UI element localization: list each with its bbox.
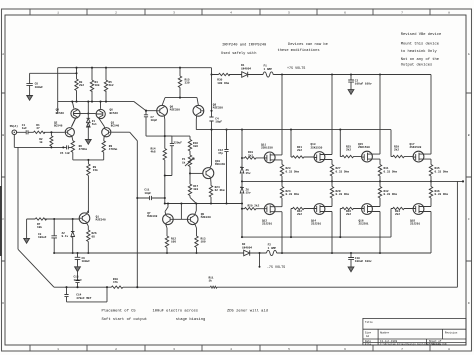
node emitter tie xyxy=(87,159,89,161)
svg-text:220uF: 220uF xyxy=(174,141,183,144)
svg-text:Placement of C5: Placement of C5 xyxy=(102,308,137,313)
svg-text:0.33 Ohm: 0.33 Ohm xyxy=(336,192,350,196)
node input xyxy=(50,131,52,133)
transistor Q3 xyxy=(102,128,111,137)
svg-text:1k: 1k xyxy=(39,140,43,144)
svg-text:4: 4 xyxy=(230,348,232,351)
svg-text:2: 2 xyxy=(115,348,117,351)
resistor R23 xyxy=(280,160,283,182)
svg-text:47: 47 xyxy=(36,127,40,130)
svg-text:MJE350: MJE350 xyxy=(213,107,223,110)
wire output rail xyxy=(242,181,463,287)
svg-text:6: 6 xyxy=(344,348,346,351)
transistor Q8 MJE350 xyxy=(193,105,204,116)
svg-text:Title: Title xyxy=(365,320,373,324)
svg-text:2SK1530: 2SK1530 xyxy=(261,147,273,150)
svg-text:2SK1530: 2SK1530 xyxy=(311,146,323,149)
capacitor C9 220uF branch xyxy=(165,136,174,175)
svg-text:62 Ohm: 62 Ohm xyxy=(215,188,225,192)
resistor R34 gate xyxy=(391,207,413,237)
wire R7 left leg xyxy=(26,219,28,238)
wire C7 to VAS node xyxy=(146,135,165,137)
svg-text:2k2: 2k2 xyxy=(297,212,302,216)
frame right tick marks xyxy=(466,93,472,261)
svg-text:1N4004: 1N4004 xyxy=(241,67,251,70)
svg-text:4: 4 xyxy=(230,11,232,14)
wire cascode base tie xyxy=(81,113,96,115)
svg-text:D: D xyxy=(2,302,4,305)
svg-text:1: 1 xyxy=(57,348,59,351)
wire Q4 collector stub xyxy=(72,102,74,109)
wire left bias drop to Q4 base xyxy=(57,68,59,114)
svg-text:8: 8 xyxy=(448,348,450,351)
svg-text:Revised VBe device: Revised VBe device xyxy=(401,32,442,37)
svg-text:R20 2k2: R20 2k2 xyxy=(248,203,260,207)
wire Q3 base to feedback xyxy=(112,132,138,287)
resistor R24 xyxy=(209,186,212,204)
wire Q12 drain xyxy=(281,212,283,253)
resistor R15 xyxy=(178,68,181,98)
resistor R32 source xyxy=(378,181,381,206)
junction nodes bias network xyxy=(189,172,191,174)
junction nodes P gate xyxy=(241,208,243,210)
svg-text:4k8: 4k8 xyxy=(193,144,198,148)
scan artifact left edge xyxy=(0,186,2,256)
mosfet Q11 xyxy=(264,152,275,163)
transistor Q4 xyxy=(71,109,80,118)
note revised vbe device xyxy=(401,32,442,68)
input jack IN(A) xyxy=(12,130,17,135)
transistor Q6 MJE350 xyxy=(157,105,168,116)
svg-text:47k: 47k xyxy=(113,280,118,284)
wire P gate bus xyxy=(242,236,391,238)
wire bottom rail left xyxy=(54,252,244,254)
zener Z2 xyxy=(71,219,75,253)
svg-text:10pF: 10pF xyxy=(144,192,151,195)
svg-text:B: B xyxy=(2,134,4,137)
wire Z1 top link xyxy=(87,102,89,114)
svg-text:MJE340: MJE340 xyxy=(147,215,157,218)
wire Q3 collector to Q6 emitter xyxy=(103,127,105,129)
svg-text:A4: A4 xyxy=(366,335,370,338)
svg-text:Devices can now be: Devices can now be xyxy=(288,42,328,47)
svg-text:10k: 10k xyxy=(95,83,100,87)
svg-text:2k2: 2k2 xyxy=(346,212,351,216)
wire Q1 base xyxy=(27,218,80,220)
svg-text:Revision: Revision xyxy=(445,330,458,334)
junction nodes front end xyxy=(75,72,77,74)
transistor Q8 MJE340 xyxy=(187,214,198,225)
wire Q10 base xyxy=(190,172,203,174)
resistor R13 xyxy=(195,224,198,253)
svg-text:0.33 Ohm: 0.33 Ohm xyxy=(435,169,449,173)
resistor R18 xyxy=(165,136,192,155)
ground below Z1 xyxy=(85,140,91,145)
wire bias node row xyxy=(165,203,242,205)
ground below C2 xyxy=(348,90,354,95)
ground arrow C6 xyxy=(75,262,81,281)
wire Q18 drain xyxy=(430,212,432,254)
resistor R3 xyxy=(75,68,78,102)
svg-text:MJE340: MJE340 xyxy=(215,163,225,166)
capacitor C13 xyxy=(75,281,79,288)
wire Q8 collector xyxy=(195,116,197,130)
svg-text:Size: Size xyxy=(365,330,372,334)
zener chain vertical xyxy=(241,130,243,238)
diode D1 xyxy=(242,72,263,78)
wire Q1 collector xyxy=(87,211,89,214)
resistor R2 xyxy=(50,132,53,147)
junction nodes rails xyxy=(281,73,283,75)
svg-text:IN(A): IN(A) xyxy=(10,124,19,128)
junction dots front end xyxy=(71,67,147,115)
wire jack sleeve xyxy=(14,135,63,148)
zener Z1 xyxy=(87,114,91,140)
wire bias vertical xyxy=(210,68,212,168)
resistor R6 xyxy=(71,141,74,160)
wire ground drop xyxy=(18,147,54,287)
svg-text:BC546: BC546 xyxy=(54,125,63,128)
svg-text:100uF: 100uF xyxy=(35,86,44,89)
svg-text:47p: 47p xyxy=(218,152,223,155)
svg-text:100 Ohm: 100 Ohm xyxy=(217,81,229,85)
svg-text:IRFP240 and IRFP9240: IRFP240 and IRFP9240 xyxy=(222,42,266,47)
svg-text:Output devices: Output devices xyxy=(401,63,433,68)
svg-text:4k8: 4k8 xyxy=(151,150,156,154)
wire N gate bus xyxy=(196,129,391,131)
svg-text:2SK1530: 2SK1530 xyxy=(410,146,422,149)
svg-text:1uF: 1uF xyxy=(22,127,27,130)
resistor R27 xyxy=(330,160,333,182)
svg-text:470nF MET: 470nF MET xyxy=(76,297,91,300)
resistor R12 xyxy=(165,224,168,253)
svg-text:1k: 1k xyxy=(182,160,186,164)
mosfet Q18 xyxy=(413,204,424,215)
wire Q14 drain xyxy=(331,212,333,254)
wire Q11 drain xyxy=(281,75,283,155)
svg-text:3: 3 xyxy=(173,348,175,351)
ground below C10 xyxy=(348,267,354,272)
mosfet Q14 xyxy=(314,204,325,215)
wire feedback line xyxy=(54,286,457,288)
node sleeve R2 xyxy=(50,146,52,148)
transistor Q10 vbe multiplier xyxy=(203,168,214,179)
wire Q8 collector xyxy=(195,204,196,215)
capacitor C10 xyxy=(348,253,354,267)
svg-text:100: 100 xyxy=(171,241,176,244)
title block xyxy=(363,318,466,345)
svg-text:10pF: 10pF xyxy=(151,119,158,122)
svg-text:1 AMP: 1 AMP xyxy=(268,247,277,250)
resistor R21 gate xyxy=(291,130,314,159)
note placement of C5 xyxy=(102,308,269,322)
zener Z6 xyxy=(240,187,244,193)
svg-text:BC546: BC546 xyxy=(56,112,65,115)
capacitor C11 wire xyxy=(137,196,165,200)
svg-text:9.1v: 9.1v xyxy=(62,235,69,238)
svg-text:these modifications: these modifications xyxy=(278,48,320,53)
wire Q15 drain xyxy=(379,75,381,155)
svg-text:2k2: 2k2 xyxy=(346,148,351,152)
wire emitter tie xyxy=(73,159,104,161)
svg-text:15v: 15v xyxy=(246,192,251,195)
svg-text:2: 2 xyxy=(115,11,117,14)
resistor R7 xyxy=(35,218,47,220)
wire Q6 collector stub xyxy=(100,102,102,109)
svg-text:+75 VOLTS: +75 VOLTS xyxy=(287,67,305,71)
resistor R35 xyxy=(429,159,432,181)
svg-text:5: 5 xyxy=(288,348,290,351)
wire front-end top rail xyxy=(58,67,212,69)
svg-text:Number: Number xyxy=(380,330,390,334)
svg-text:MJE340: MJE340 xyxy=(96,218,106,221)
resistor R25 gate xyxy=(340,130,361,158)
svg-text:0.33 Ohm: 0.33 Ohm xyxy=(336,169,350,173)
svg-text:D: D xyxy=(468,302,470,305)
resistor R26 gate xyxy=(340,207,361,237)
resistor R17 xyxy=(188,173,196,203)
resistor R10 xyxy=(111,286,123,288)
svg-text:3k3: 3k3 xyxy=(193,187,198,191)
svg-text:C5 1nF: C5 1nF xyxy=(60,152,70,155)
svg-text:A: A xyxy=(2,53,4,56)
wire Q6 collector xyxy=(163,115,166,148)
svg-text:2SK1530: 2SK1530 xyxy=(358,146,370,149)
capacitor C8 xyxy=(26,73,32,95)
svg-text:ZD5 zener will aid: ZD5 zener will aid xyxy=(227,308,268,313)
resistor R28 source xyxy=(330,181,333,206)
wire Q2 collector to Q4 emitter xyxy=(72,119,76,127)
svg-text:File: File xyxy=(365,342,372,346)
capacitor C14 loop xyxy=(64,287,107,302)
wire Q7 collector xyxy=(165,204,168,215)
capacitor C4 xyxy=(209,117,213,121)
svg-text:15k: 15k xyxy=(93,168,98,172)
resistor R20 gate xyxy=(242,208,264,210)
svg-text:6: 6 xyxy=(344,11,346,14)
svg-text:5v1: 5v1 xyxy=(92,123,97,126)
junction nodes VAS xyxy=(179,67,181,69)
svg-text:A: A xyxy=(468,53,470,56)
resistor R29 gate xyxy=(391,130,413,158)
ground below R7 xyxy=(24,238,30,243)
transistor Q6 input cascode xyxy=(96,109,105,118)
svg-text:15v: 15v xyxy=(246,172,251,175)
wire Q10 emitter to R24 xyxy=(210,178,212,185)
svg-text:B: B xyxy=(468,134,470,137)
svg-text:2SJ201: 2SJ201 xyxy=(262,223,272,226)
mosfet Q13 xyxy=(314,152,325,163)
capacitor C5 xyxy=(63,145,71,149)
resistor R30 xyxy=(212,73,242,75)
frame bottom tick marks xyxy=(30,345,430,351)
resistor R11 xyxy=(210,286,217,288)
svg-text:100uF: 100uF xyxy=(38,236,47,239)
svg-text:Drawn By:: Drawn By: xyxy=(429,343,443,346)
frame left tick marks xyxy=(2,93,6,261)
wire +75V rail xyxy=(282,74,431,76)
svg-text:100uF 100v: 100uF 100v xyxy=(355,83,372,86)
svg-text:330: 330 xyxy=(185,82,190,85)
resistor R36 source xyxy=(429,181,432,206)
diode D2 xyxy=(244,250,267,256)
junction nodes feedback xyxy=(76,252,78,254)
resistor R22 gate xyxy=(291,207,314,237)
capacitor C7 xyxy=(144,111,148,136)
svg-text:1N4004: 1N4004 xyxy=(242,246,252,249)
svg-text:2k2: 2k2 xyxy=(109,83,114,87)
svg-text:C: C xyxy=(2,218,4,221)
resistor R24 source xyxy=(280,181,283,206)
svg-text:7: 7 xyxy=(401,11,403,14)
svg-text:MJE340: MJE340 xyxy=(201,216,211,219)
resistor R14 xyxy=(163,149,166,204)
zener Z5 xyxy=(240,167,244,173)
wire MJE350 emitter bus xyxy=(162,98,198,106)
svg-text:2k2: 2k2 xyxy=(394,148,399,152)
resistor R19 gate xyxy=(242,157,264,159)
mosfet Q15 xyxy=(362,151,373,162)
svg-text:100uF electro across: 100uF electro across xyxy=(153,308,199,313)
svg-text:BC546: BC546 xyxy=(110,112,119,115)
svg-text:0.33 Ohm: 0.33 Ohm xyxy=(435,192,449,196)
svg-text:2k2: 2k2 xyxy=(248,153,253,157)
svg-text:7: 7 xyxy=(401,348,403,351)
svg-text:0.33 Ohm: 0.33 Ohm xyxy=(286,192,300,196)
svg-text:0.33 Ohm: 0.33 Ohm xyxy=(384,169,398,173)
svg-text:10pF: 10pF xyxy=(215,121,222,124)
capacitor C1 xyxy=(17,130,34,134)
svg-text:BC546: BC546 xyxy=(111,125,120,128)
svg-text:1k: 1k xyxy=(209,279,213,283)
svg-text:C: C xyxy=(468,218,470,221)
svg-text:1 AMP: 1 AMP xyxy=(264,68,273,71)
svg-text:100nF: 100nF xyxy=(74,279,83,282)
mosfet Q12 xyxy=(264,204,275,215)
resistor Q1 emitter xyxy=(87,223,90,253)
junction nodes Q1 bias xyxy=(53,218,55,220)
resistor R8 xyxy=(102,141,105,160)
svg-text:0.33 Ohm: 0.33 Ohm xyxy=(384,192,398,196)
svg-text:100uF: 100uF xyxy=(82,260,91,263)
svg-text:100: 100 xyxy=(201,241,206,244)
note devices modification xyxy=(221,42,328,56)
junction nodes output rail xyxy=(241,180,243,182)
svg-text:8: 8 xyxy=(448,11,450,14)
transistor Q2 xyxy=(65,128,74,137)
svg-text:2SJ201: 2SJ201 xyxy=(410,223,420,226)
svg-text:MJE350: MJE350 xyxy=(170,109,180,112)
fuse F1 xyxy=(263,72,282,77)
ground below C8 xyxy=(27,96,33,101)
svg-text:2SJ201: 2SJ201 xyxy=(311,223,321,226)
svg-text:stage biasing: stage biasing xyxy=(176,317,206,322)
capacitor C3 xyxy=(51,219,57,253)
wire Q13 drain xyxy=(331,75,333,155)
resistor R4 xyxy=(90,68,93,102)
svg-text:10k: 10k xyxy=(37,225,42,229)
resistor R1 xyxy=(34,131,65,133)
mosfet Q17 xyxy=(413,151,424,162)
capacitor C2 xyxy=(348,75,354,90)
transistor Q7 MJE340 xyxy=(163,214,174,225)
svg-text:68: 68 xyxy=(92,235,96,238)
svg-text:to heatsink Only: to heatsink Only xyxy=(401,49,438,54)
wire Q16 drain xyxy=(379,212,381,254)
svg-text:1: 1 xyxy=(57,11,59,14)
resistor R9 tail xyxy=(87,160,90,213)
svg-text:0.33 Ohm: 0.33 Ohm xyxy=(286,169,300,173)
svg-text:3: 3 xyxy=(173,11,175,14)
capacitor C12 xyxy=(224,130,228,204)
trimmer P1 xyxy=(185,155,194,173)
svg-text:Not on any of the: Not on any of the xyxy=(401,57,439,62)
wire -75V stub xyxy=(259,253,261,267)
wire Q7 Q8 base tie xyxy=(173,204,187,220)
svg-text:2k2: 2k2 xyxy=(79,83,84,87)
svg-text:-75 VOLTS: -75 VOLTS xyxy=(267,266,285,270)
svg-text:2SJ201: 2SJ201 xyxy=(359,223,369,226)
capacitor C6 xyxy=(75,253,81,262)
svg-text:2k2: 2k2 xyxy=(395,212,400,216)
resistor R31 xyxy=(378,159,381,181)
resistor R5 xyxy=(104,68,107,102)
wire Q17 drain xyxy=(430,75,432,155)
svg-text:47Ohm: 47Ohm xyxy=(79,147,88,151)
svg-text:Soft start of output: Soft start of output xyxy=(102,317,148,322)
svg-text:Used safely with: Used safely with xyxy=(221,51,256,56)
svg-text:Mount this device: Mount this device xyxy=(401,41,439,46)
svg-text:2k2: 2k2 xyxy=(297,148,302,152)
svg-text:100uF 100v: 100uF 100v xyxy=(355,260,372,263)
svg-text:47Ohm: 47Ohm xyxy=(109,147,118,151)
wire collector bus to VAS base xyxy=(58,102,157,111)
svg-text:5: 5 xyxy=(288,11,290,14)
transistor Q1 xyxy=(79,213,90,224)
fuse F2 xyxy=(267,250,432,255)
frame top tick marks xyxy=(30,9,430,15)
mosfet Q16 xyxy=(362,204,373,215)
